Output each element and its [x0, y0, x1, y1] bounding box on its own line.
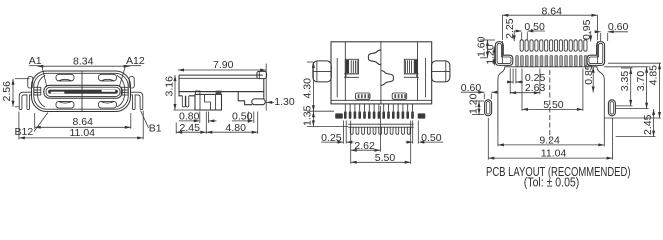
shell bottom edge	[179, 91, 264, 93]
right side tab	[432, 61, 450, 82]
pad row B (bottom)	[516, 55, 587, 66]
svg-text:B12: B12	[15, 126, 34, 138]
dim 2.62	[350, 121, 352, 164]
dim 0.95	[590, 31, 592, 42]
dim 7.90	[178, 69, 266, 71]
left end contact detail	[34, 87, 41, 95]
dim 3.70	[616, 108, 649, 110]
svg-text:11.04: 11.04	[541, 148, 567, 160]
center line	[549, 70, 551, 140]
center seam line	[81, 71, 83, 111]
dim 8.64 top	[502, 14, 597, 16]
svg-text:1.20: 1.20	[484, 44, 496, 65]
svg-text:8.34: 8.34	[73, 56, 94, 68]
block right post	[216, 91, 222, 95]
svg-text:2.62: 2.62	[354, 140, 375, 152]
dim 9.24	[497, 135, 499, 146]
break blob lower	[381, 71, 394, 86]
dim 8.34	[37, 65, 129, 67]
left side tab	[313, 61, 331, 82]
smt pin row	[345, 104, 412, 111]
dim 2.25	[513, 31, 515, 41]
svg-text:2.25: 2.25	[504, 18, 516, 39]
inner bottom line	[331, 99, 432, 101]
left edge	[178, 75, 180, 92]
smt pin pads dark	[344, 111, 414, 119]
tongue outer	[44, 85, 122, 98]
shell pad right	[418, 113, 426, 118]
dim 2.56	[12, 79, 14, 107]
contact band	[48, 90, 118, 94]
svg-text:2.45: 2.45	[642, 114, 654, 135]
front foot ledge	[179, 92, 195, 96]
svg-text:1.30: 1.30	[274, 96, 295, 108]
left shell legs	[19, 92, 31, 109]
inner vertical right 1	[425, 58, 427, 97]
bottom-left hole pad	[485, 100, 492, 116]
center line	[380, 42, 382, 104]
dim 1.35	[307, 110, 334, 112]
dim 3.16	[174, 75, 176, 110]
inner vertical left 2	[344, 42, 346, 101]
svg-text:(Tol: ± 0.05): (Tol: ± 0.05)	[524, 175, 580, 189]
leg comb	[348, 123, 413, 125]
dim 11.04	[18, 112, 20, 140]
svg-text:3.16: 3.16	[163, 76, 175, 97]
dim 5.50	[410, 121, 412, 164]
svg-text:8.64: 8.64	[73, 116, 94, 128]
rear edge	[263, 79, 265, 99]
svg-text:7.90: 7.90	[213, 59, 234, 71]
body outline	[331, 42, 432, 104]
weld dimple top-right	[99, 74, 117, 81]
dim 1.20 left lower	[478, 101, 480, 115]
dim 1.60	[487, 40, 489, 58]
shell inner outline	[34, 73, 128, 109]
shell top edge	[179, 74, 263, 76]
shell pad left	[335, 113, 343, 118]
weld dimple top-left	[56, 74, 74, 81]
svg-text:4.85: 4.85	[648, 65, 660, 86]
svg-text:1.20: 1.20	[467, 93, 479, 114]
svg-text:11.04: 11.04	[70, 127, 96, 139]
rear step	[238, 92, 252, 105]
shell left end arc	[37, 76, 45, 107]
rear foot	[252, 99, 265, 105]
dim 8.64	[34, 113, 36, 129]
svg-text:3.70: 3.70	[635, 71, 647, 92]
svg-text:5.50: 5.50	[375, 152, 396, 164]
bottom-right hole pad	[608, 100, 615, 116]
tongue inner	[46, 87, 120, 96]
footprint outline	[498, 67, 604, 135]
break blob upper	[368, 50, 381, 65]
dim 3.35	[616, 105, 633, 107]
hatched window left	[356, 93, 371, 99]
corner pad top-right	[587, 42, 605, 66]
weld dimple bottom-right	[99, 101, 117, 108]
top-right shell tab	[129, 77, 134, 89]
inner vertical left 1	[336, 58, 338, 97]
svg-text:B1: B1	[149, 122, 162, 134]
weld dimple bottom-left	[56, 101, 74, 108]
insulator block	[195, 94, 222, 110]
right shell legs	[130, 92, 142, 109]
rear tab	[257, 71, 267, 78]
corner pad top-left	[495, 42, 513, 66]
dim 4.85	[604, 117, 661, 119]
block left post	[195, 91, 200, 94]
left latch detail	[345, 59, 358, 74]
svg-text:2.56: 2.56	[1, 81, 13, 102]
pad row A (top)	[520, 40, 587, 51]
svg-text:4.30: 4.30	[302, 78, 314, 99]
svg-text:3.35: 3.35	[619, 71, 631, 92]
dim 0.85	[592, 67, 594, 93]
top-left shell tab	[28, 77, 33, 89]
right latch detail	[404, 59, 417, 74]
svg-text:8.64: 8.64	[542, 5, 563, 17]
dim 1.20	[493, 47, 495, 66]
svg-text:9.24: 9.24	[539, 134, 560, 146]
svg-text:0.95: 0.95	[581, 19, 593, 40]
svg-text:1.35: 1.35	[302, 105, 314, 126]
dim 2.45 pcb	[653, 109, 655, 137]
dim 11.04 pcb	[487, 118, 489, 160]
svg-text:0.85: 0.85	[583, 64, 595, 85]
shell right end arc	[117, 76, 125, 107]
block inner lines	[199, 94, 201, 110]
inner vertical right 2	[417, 42, 419, 101]
dim 4.30	[307, 61, 313, 63]
hatched window right	[392, 93, 407, 99]
shell outer outline	[32, 71, 131, 112]
right end contact detail	[121, 87, 128, 95]
